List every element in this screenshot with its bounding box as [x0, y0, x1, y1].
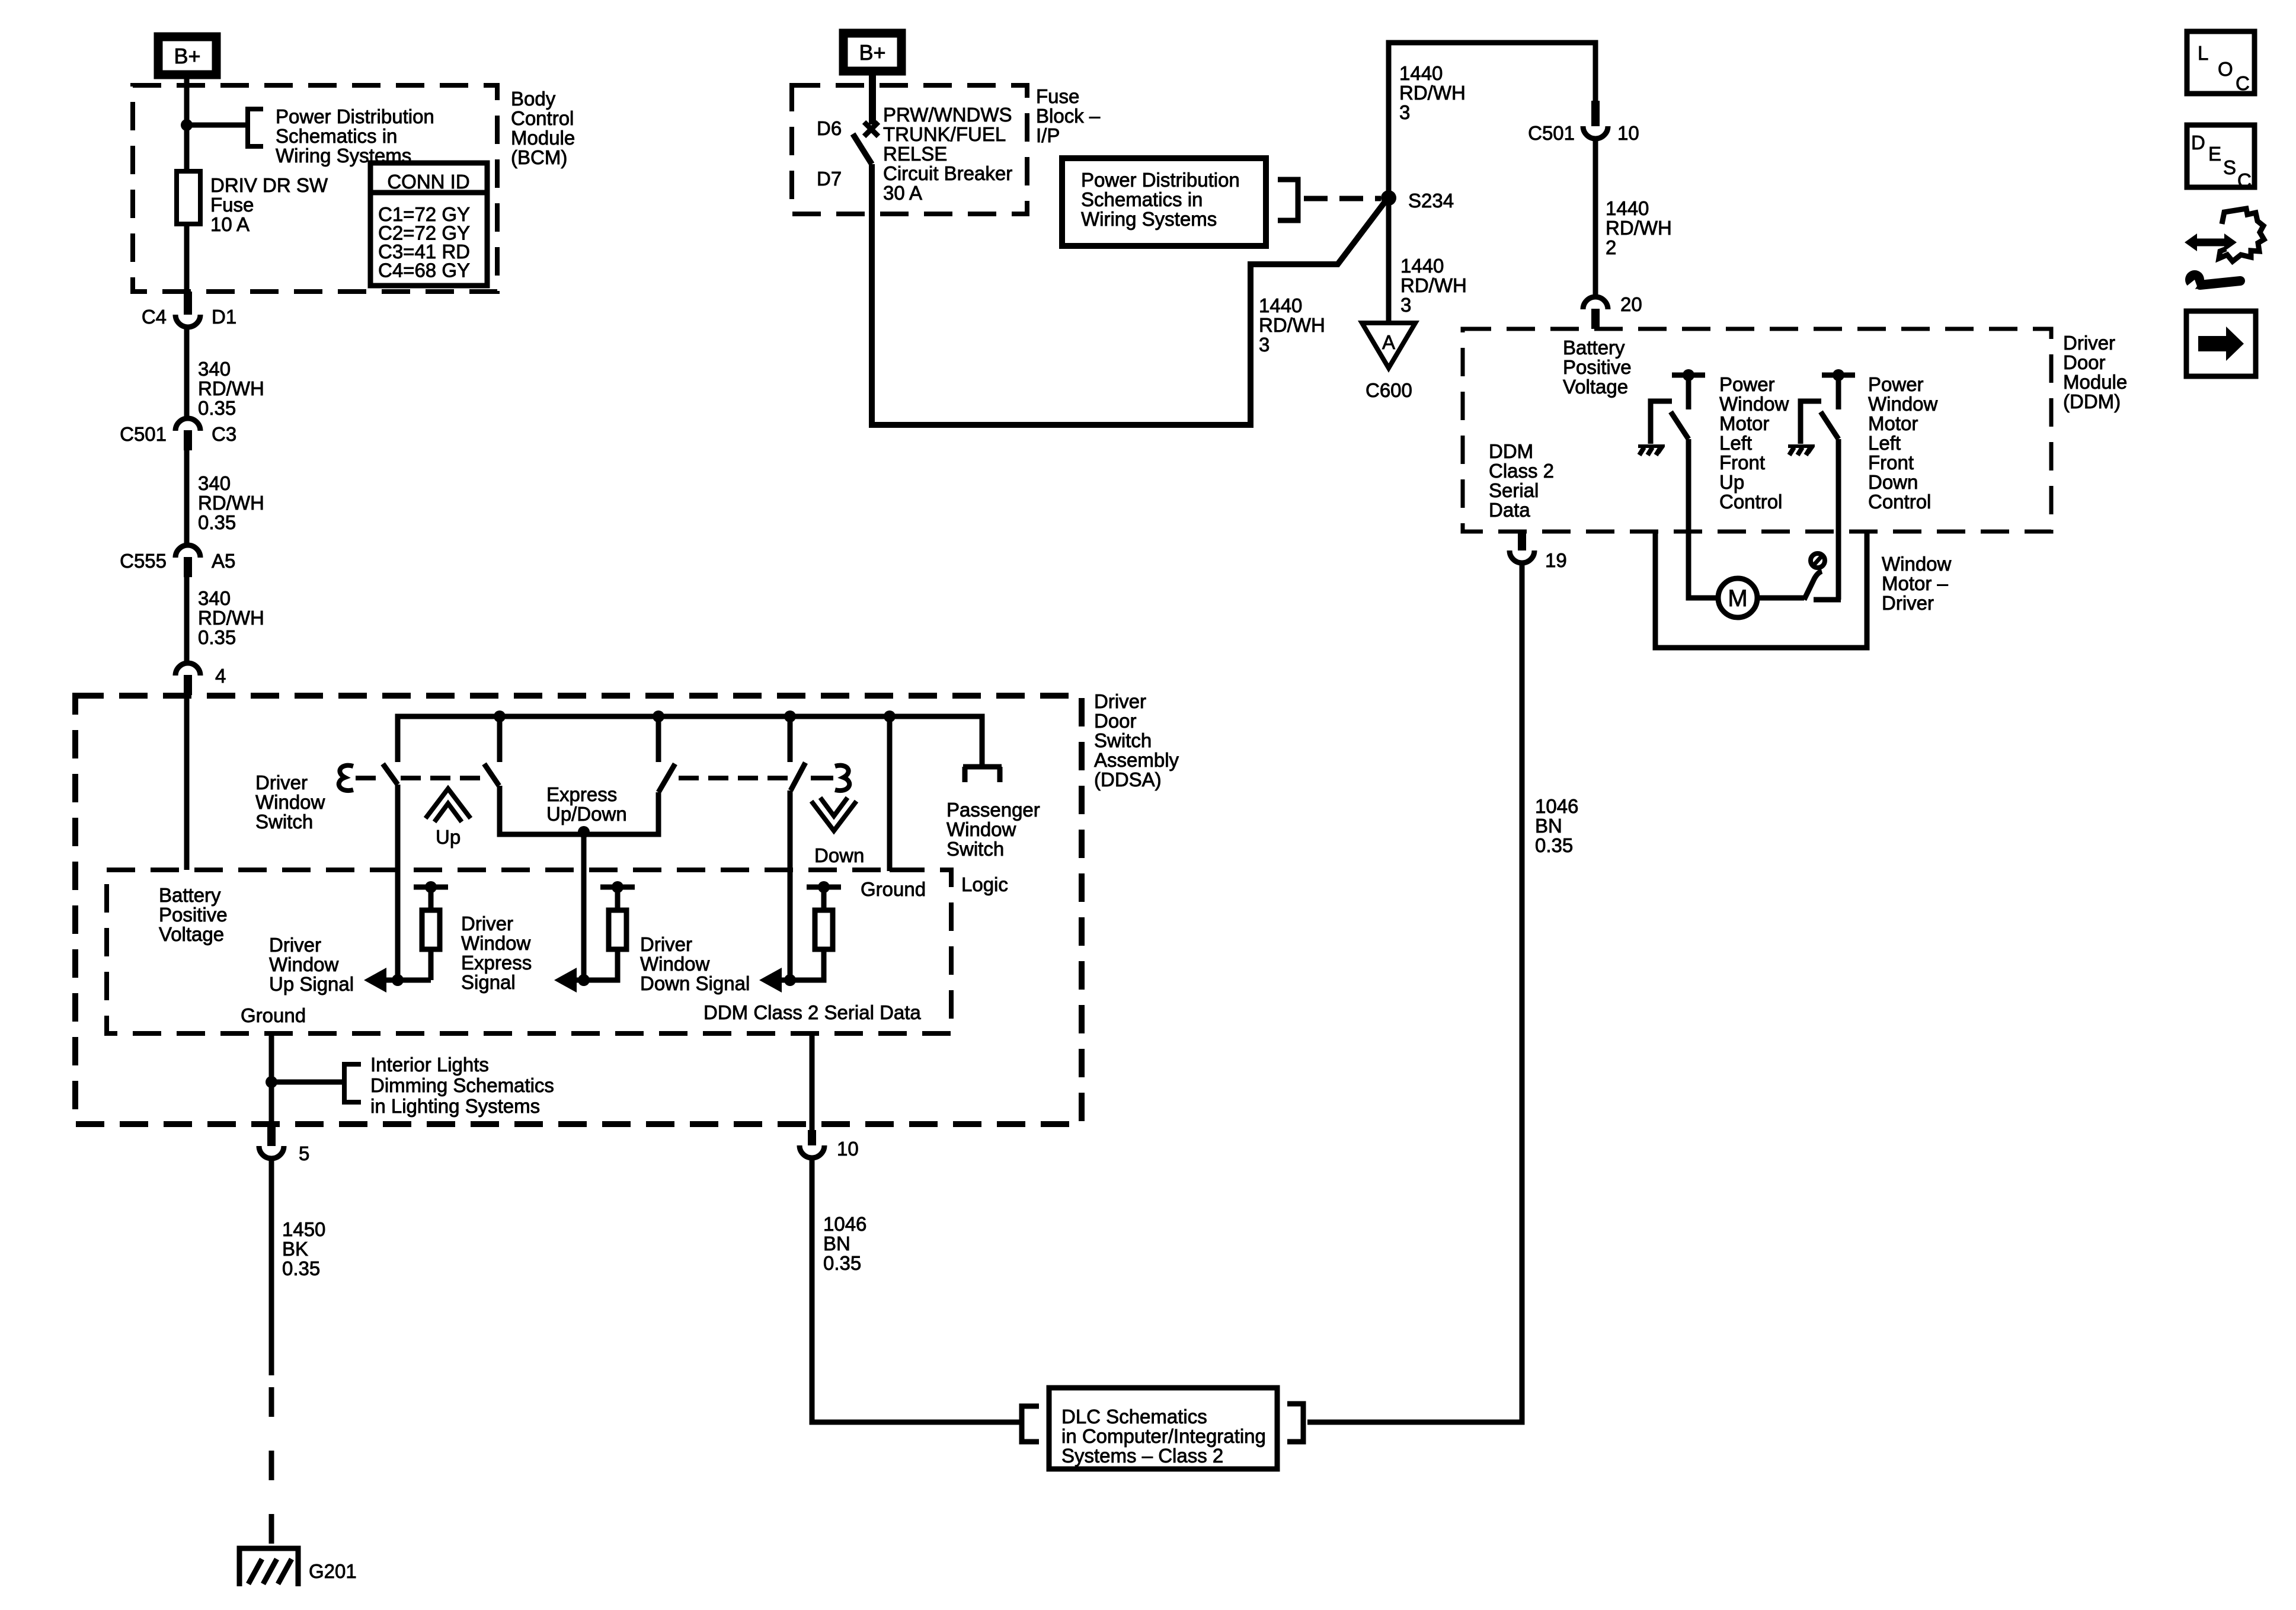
label: Express Up/Down: [546, 783, 627, 825]
svg-text:C: C: [2236, 72, 2250, 94]
svg-text:340: 340: [198, 358, 231, 380]
svg-text:Window: Window: [461, 932, 531, 954]
svg-text:Data: Data: [1489, 499, 1530, 521]
svg-text:Positive: Positive: [1563, 356, 1632, 378]
svg-text:A5: A5: [212, 550, 235, 572]
svg-text:BK: BK: [282, 1238, 308, 1260]
svg-text:Signal: Signal: [461, 971, 516, 993]
circuit breaker blade: [853, 134, 872, 164]
box: Power Distribution Schematics in Wiring Systems: [1062, 158, 1266, 246]
svg-text:Power: Power: [1868, 373, 1924, 395]
connector pin 19 (DDM serial data): [1510, 530, 1567, 571]
node: express center junction: [578, 826, 590, 838]
svg-text:1046: 1046: [823, 1213, 866, 1235]
connector pin 5: [259, 1126, 309, 1164]
svg-text:(DDSA): (DDSA): [1094, 769, 1162, 790]
svg-text:Up Signal: Up Signal: [269, 973, 354, 995]
wire 340 RD/WH segment 1: [184, 327, 190, 418]
off-page connector A / C600: [1362, 323, 1415, 401]
svg-text:E: E: [2208, 143, 2221, 165]
svg-text:0.35: 0.35: [198, 397, 236, 419]
reference bracket (right of box): [1278, 180, 1298, 220]
svg-text:B+: B+: [174, 44, 200, 68]
svg-text:Window: Window: [1882, 553, 1952, 575]
svg-text:D: D: [2191, 132, 2205, 153]
label: Body Control Module (BCM): [511, 88, 575, 168]
svg-text:Class 2: Class 2: [1489, 460, 1554, 482]
label: Up: [436, 826, 461, 848]
label: Window Motor - Driver: [1882, 553, 1952, 614]
svg-text:I/P: I/P: [1036, 124, 1060, 146]
svg-text:Driver: Driver: [2063, 332, 2115, 354]
wire: tap to interior lights bracket: [271, 1080, 343, 1085]
svg-text:RD/WH: RD/WH: [1259, 314, 1325, 336]
box: DLC Schematics in Computer/Integrating Systems - Class 2: [1049, 1388, 1277, 1469]
wire + arrow: Driver Window Up Signal: [364, 968, 431, 993]
reference bracket: DLC right: [1287, 1404, 1303, 1442]
svg-text:Up/Down: Up/Down: [546, 803, 627, 825]
label: 1440 RD/WH 3 (to C600): [1400, 255, 1467, 316]
svg-text:Fuse: Fuse: [1036, 85, 1079, 107]
wire: ground pin from bus junction 4: [890, 716, 923, 871]
wire 1440 RD/WH: breaker to S234: [872, 164, 1386, 425]
svg-text:10: 10: [837, 1138, 859, 1160]
label: Driver Window Up Signal: [269, 934, 354, 995]
svg-text:TRUNK/FUEL: TRUNK/FUEL: [883, 123, 1006, 145]
connector pin 20 (DDM): [1583, 293, 1642, 329]
svg-text:in Computer/Integrating: in Computer/Integrating: [1061, 1425, 1266, 1447]
svg-text:20: 20: [1620, 293, 1642, 315]
svg-text:Power Distribution: Power Distribution: [276, 105, 434, 127]
svg-text:0.35: 0.35: [823, 1252, 861, 1274]
svg-text:DDM Class 2 Serial Data: DDM Class 2 Serial Data: [703, 1001, 921, 1023]
svg-text:Driver: Driver: [1094, 690, 1146, 712]
svg-text:Battery: Battery: [159, 884, 221, 906]
svg-text:Window: Window: [946, 818, 1016, 840]
label: Passenger Window Switch: [946, 799, 1040, 860]
thermal breaker symbol (circle-slash): [1811, 553, 1825, 568]
svg-text:Block –: Block –: [1036, 105, 1101, 127]
node: bus junction 2: [653, 710, 664, 722]
svg-text:Body: Body: [511, 88, 556, 110]
svg-text:C4=68 GY: C4=68 GY: [378, 260, 470, 281]
svg-text:Up: Up: [436, 826, 461, 848]
label: Power Window Motor Left Front Down Control: [1868, 373, 1938, 513]
label: pin D7: [817, 168, 842, 190]
arrow: Driver Window Express Signal: [554, 968, 590, 993]
node: interior lights tap: [266, 1076, 277, 1088]
icon box: LOC: [2187, 31, 2255, 94]
brace: circuit continues (left): [339, 766, 353, 790]
connector C555 / A5: [120, 545, 235, 577]
svg-text:Schematics in: Schematics in: [276, 125, 397, 147]
svg-text:G201: G201: [309, 1560, 357, 1582]
svg-text:Module: Module: [511, 127, 575, 149]
switch: express up/down pair: [484, 716, 675, 834]
svg-text:30 A: 30 A: [883, 182, 922, 204]
svg-text:340: 340: [198, 587, 231, 609]
fuse DRIV DR SW 10 A: [177, 171, 200, 224]
svg-text:10: 10: [1617, 122, 1639, 144]
switch: driver window down: [790, 716, 805, 980]
svg-text:Front: Front: [1868, 452, 1914, 473]
label: Ground (right pin): [861, 878, 926, 900]
svg-text:Window: Window: [255, 791, 325, 813]
wire: fuse to connector C4: [184, 224, 190, 292]
label: Battery Positive Voltage (DDSA): [159, 884, 228, 945]
module box: DDSA inner electronics, dashed: [107, 870, 951, 1033]
svg-text:1440: 1440: [1399, 62, 1443, 84]
wire: motor to thermal breaker blade: [1757, 571, 1822, 600]
ground (up control): [1638, 444, 1665, 455]
svg-text:PRW/WNDWS: PRW/WNDWS: [883, 104, 1012, 126]
wire: motor return loop: [1655, 532, 1867, 648]
svg-text:CONN ID: CONN ID: [387, 171, 469, 193]
switch: driver window up: [383, 764, 398, 980]
connector C501 / 10 (DDM feed): [1528, 101, 1639, 144]
svg-text:Passenger: Passenger: [946, 799, 1040, 821]
label: Interior Lights Dimming Schematics in Lighting Systems: [370, 1054, 554, 1117]
svg-text:DLC Schematics: DLC Schematics: [1061, 1406, 1207, 1427]
svg-text:Door: Door: [2063, 351, 2106, 373]
label: Ground (left pin): [241, 1004, 306, 1026]
svg-text:C501: C501: [1528, 122, 1575, 144]
svg-text:Motor: Motor: [1868, 412, 1918, 434]
svg-text:5: 5: [299, 1142, 309, 1164]
resistor: express signal pull-up: [584, 881, 635, 980]
svg-text:C4: C4: [142, 306, 167, 328]
node: bus junction 1: [494, 710, 506, 722]
svg-text:Down Signal: Down Signal: [640, 972, 750, 994]
svg-text:4: 4: [215, 665, 226, 687]
motor M: window motor driver: [1718, 578, 1757, 617]
svg-text:Express: Express: [461, 952, 532, 974]
svg-text:Logic: Logic: [961, 873, 1008, 895]
icon box: DESC: [2187, 125, 2255, 191]
power symbol B+ (fuse block): [843, 33, 901, 71]
label: Driver Door Module (DDM): [2063, 332, 2127, 412]
reference bracket: DLC left: [1022, 1406, 1039, 1442]
svg-text:Motor –: Motor –: [1882, 572, 1949, 594]
svg-text:RD/WH: RD/WH: [198, 377, 264, 399]
svg-text:(BCM): (BCM): [511, 146, 567, 168]
svg-text:A: A: [1382, 331, 1395, 353]
svg-text:1046: 1046: [1535, 795, 1578, 817]
label: Fuse Block - I/P: [1036, 85, 1101, 146]
wire 1440 RD/WH 2: [1593, 138, 1598, 297]
label: Logic: [961, 873, 1008, 895]
svg-text:Positive: Positive: [159, 904, 228, 926]
label: Driver Window Express Signal: [461, 913, 532, 993]
wire: pin 4 to Battery Positive Voltage pin: [184, 696, 190, 870]
svg-text:Power Distribution: Power Distribution: [1081, 169, 1240, 191]
svg-text:Motor: Motor: [1719, 412, 1769, 434]
symbol: Down double chevron: [811, 798, 856, 831]
connector C501 / C3: [120, 418, 236, 450]
svg-text:M: M: [1728, 585, 1747, 612]
connector pin 4 (DDSA): [175, 663, 226, 695]
svg-text:S234: S234: [1408, 190, 1454, 212]
node: bus junction 3: [784, 710, 796, 722]
module box: Driver Door Module (DDM), dashed: [1463, 329, 2051, 532]
wire 340 RD/WH segment 3: [184, 577, 190, 662]
connector pin 10 (DDSA serial data): [800, 1033, 859, 1160]
label: Battery Positive Voltage (DDM): [1563, 337, 1632, 398]
svg-text:Down: Down: [1868, 471, 1918, 493]
wire: switch common bus: [398, 716, 982, 764]
svg-text:Serial: Serial: [1489, 479, 1539, 501]
svg-text:340: 340: [198, 472, 231, 494]
label: Power Distribution Schematics in Wiring Systems: [276, 105, 434, 167]
icon: service tool (arrow + wrench): [2183, 209, 2264, 295]
wire: S234 to C600: [1386, 198, 1392, 323]
arrow: Driver Window Down Signal: [759, 968, 796, 993]
svg-text:0.35: 0.35: [198, 626, 236, 648]
icon box: forward arrow: [2186, 311, 2256, 376]
svg-text:B+: B+: [859, 40, 885, 65]
label: 340 RD/WH 0.35 (3): [198, 587, 264, 648]
svg-text:Ground: Ground: [241, 1004, 306, 1026]
svg-text:Circuit Breaker: Circuit Breaker: [883, 162, 1012, 184]
table: CONN ID C1=72 GY C2=72 GY C3=41 RD C4=68 GY: [370, 163, 487, 286]
svg-text:RD/WH: RD/WH: [1400, 274, 1467, 296]
svg-text:Voltage: Voltage: [1563, 376, 1628, 398]
svg-text:Ground: Ground: [861, 878, 926, 900]
wire: B+ to fuse (BCM): [184, 75, 190, 171]
svg-text:Systems – Class 2: Systems – Class 2: [1061, 1445, 1223, 1467]
svg-text:Driver: Driver: [1882, 592, 1934, 614]
ground G201: [239, 1548, 357, 1586]
dashed switch row wire: [356, 776, 833, 780]
svg-text:0.35: 0.35: [282, 1257, 320, 1279]
svg-text:1450: 1450: [282, 1218, 325, 1240]
label: Power Window Motor Left Front Up Control: [1719, 373, 1789, 513]
label: DRIV DR SW Fuse 10 A: [210, 174, 328, 235]
svg-text:0.35: 0.35: [198, 511, 236, 533]
svg-text:Interior Lights: Interior Lights: [370, 1054, 489, 1076]
svg-text:S: S: [2223, 156, 2236, 178]
svg-text:RD/WH: RD/WH: [1606, 217, 1672, 239]
svg-text:Driver: Driver: [269, 934, 321, 956]
svg-text:Switch: Switch: [255, 811, 313, 833]
svg-text:Wiring Systems: Wiring Systems: [1081, 208, 1217, 230]
svg-text:BN: BN: [823, 1233, 850, 1254]
svg-text:C501: C501: [120, 423, 167, 445]
wire: B+ into breaker: [869, 70, 876, 124]
svg-text:2: 2: [1606, 236, 1616, 258]
svg-text:Driver: Driver: [461, 913, 513, 934]
label: 1440 RD/WH 2: [1606, 197, 1672, 258]
wire: junction to reference bracket: [187, 123, 248, 128]
label: DDM Class 2 Serial Data: [1489, 440, 1554, 521]
svg-text:C600: C600: [1366, 379, 1412, 401]
svg-text:Left: Left: [1719, 432, 1752, 454]
svg-text:Battery: Battery: [1563, 337, 1625, 359]
dashed wire to S234: [1304, 196, 1381, 201]
svg-text:Express: Express: [546, 783, 617, 805]
switch: power window down control: [1801, 369, 1855, 444]
wire: down control to motor switch contact: [1814, 439, 1841, 600]
ground (down control): [1788, 444, 1815, 455]
node: bus junction 4: [884, 710, 896, 722]
svg-text:in Lighting Systems: in Lighting Systems: [370, 1095, 540, 1117]
svg-text:Window: Window: [1868, 393, 1938, 415]
svg-text:Power: Power: [1719, 373, 1775, 395]
module box: Driver Door Switch Assembly (DDSA), dashed: [75, 696, 1082, 1124]
svg-text:DDM: DDM: [1489, 440, 1533, 462]
label: 340 RD/WH 0.35 (2): [198, 472, 264, 533]
brace: circuit continues (right): [835, 766, 849, 790]
label: PRW/WNDWS TRUNK/FUEL RELSE Circuit Breaker 30 A: [883, 104, 1012, 204]
svg-text:Front: Front: [1719, 452, 1765, 473]
svg-text:Window: Window: [1719, 393, 1789, 415]
svg-text:Driver: Driver: [640, 933, 692, 955]
label: 1440 RD/WH 3 (breaker run): [1259, 295, 1325, 356]
svg-text:C555: C555: [120, 550, 167, 572]
svg-text:Window: Window: [269, 953, 339, 975]
wire: dashed run to G201: [269, 1387, 274, 1544]
wire: top feed from S234: [1389, 43, 1595, 198]
svg-text:D6: D6: [817, 117, 842, 139]
wire 1450 BK: [269, 1158, 274, 1375]
connector C4 / D1: [142, 292, 236, 328]
svg-text:L: L: [2198, 42, 2208, 64]
svg-text:Down: Down: [814, 844, 864, 866]
label: Driver Window Switch: [255, 772, 325, 833]
svg-text:Assembly: Assembly: [1094, 749, 1179, 771]
label: 1440 RD/WH 3 (top): [1399, 62, 1466, 123]
reference bracket: Interior Lights Dimming: [344, 1064, 361, 1102]
module box: Fuse Block - I/P, dashed: [792, 85, 1027, 214]
wire 340 RD/WH segment 2: [184, 450, 190, 545]
power symbol B+ (BCM feed): [158, 37, 216, 75]
circuit breaker contact X: [864, 122, 878, 136]
svg-text:Control: Control: [511, 107, 574, 129]
svg-text:DRIV DR SW: DRIV DR SW: [210, 174, 328, 196]
svg-text:O: O: [2218, 58, 2233, 80]
svg-text:1440: 1440: [1259, 295, 1302, 316]
label: Down: [814, 844, 864, 866]
label: pin D6: [817, 117, 842, 139]
svg-text:RELSE: RELSE: [883, 143, 947, 165]
switch: power window up control: [1651, 369, 1705, 444]
svg-text:Control: Control: [1719, 491, 1782, 513]
svg-text:Fuse: Fuse: [210, 194, 254, 216]
svg-text:Up: Up: [1719, 471, 1744, 493]
node S234: [1381, 190, 1454, 212]
label: 1046 BN 0.35 (right): [1535, 795, 1578, 856]
wire: express signal down: [581, 832, 587, 980]
svg-text:Driver: Driver: [255, 772, 308, 793]
wire 1046 BN: pin 10 to DLC: [812, 1158, 1022, 1422]
svg-text:Switch: Switch: [1094, 729, 1152, 751]
label: 340 RD/WH 0.35 (1): [198, 358, 264, 419]
reference bracket: Power Distribution Schematics: [248, 109, 263, 146]
svg-text:RD/WH: RD/WH: [198, 607, 264, 629]
module box: Body Control Module (BCM), dashed: [133, 85, 497, 292]
svg-text:RD/WH: RD/WH: [198, 492, 264, 514]
svg-text:0.35: 0.35: [1535, 834, 1573, 856]
svg-text:RD/WH: RD/WH: [1399, 82, 1466, 104]
wire: passenger window switch feed: [963, 764, 1002, 782]
svg-text:10 A: 10 A: [210, 213, 250, 235]
svg-text:C3: C3: [212, 423, 236, 445]
svg-text:Schematics in: Schematics in: [1081, 188, 1203, 210]
label: 1450 BK 0.35: [282, 1218, 325, 1279]
label: Driver Door Switch Assembly (DDSA): [1094, 690, 1179, 790]
label: 1046 BN 0.35 (left): [823, 1213, 866, 1274]
svg-text:Control: Control: [1868, 491, 1931, 513]
label: Driver Window Down Signal: [640, 933, 750, 994]
label: DDM Class 2 Serial Data (DDSA pin): [703, 1001, 921, 1023]
resistor: down signal pull-up: [790, 881, 841, 980]
svg-text:1440: 1440: [1400, 255, 1444, 277]
svg-text:BN: BN: [1535, 815, 1562, 837]
svg-text:Dimming Schematics: Dimming Schematics: [370, 1074, 554, 1096]
svg-text:Left: Left: [1868, 432, 1901, 454]
svg-text:1440: 1440: [1606, 197, 1649, 219]
svg-text:D7: D7: [817, 168, 842, 190]
wire 1046 BN: pin 19 to DLC: [1307, 563, 1522, 1422]
svg-text:C: C: [2237, 169, 2252, 191]
svg-text:Switch: Switch: [946, 838, 1004, 860]
wire: ground pin down to connector 5: [269, 1033, 274, 1126]
svg-text:Door: Door: [1094, 710, 1137, 732]
svg-text:19: 19: [1545, 549, 1567, 571]
symbol: Up double chevron: [426, 789, 471, 822]
resistor: up signal pull-up: [414, 881, 448, 980]
node: junction to power distribution reference: [181, 119, 193, 131]
svg-text:Window: Window: [640, 953, 710, 975]
svg-text:3: 3: [1399, 101, 1410, 123]
svg-text:Module: Module: [2063, 371, 2127, 393]
wire: up control to motor: [1689, 439, 1718, 598]
svg-text:3: 3: [1259, 334, 1269, 356]
svg-text:D1: D1: [212, 306, 236, 328]
svg-text:3: 3: [1400, 294, 1411, 316]
svg-text:(DDM): (DDM): [2063, 391, 2121, 412]
svg-text:Voltage: Voltage: [159, 923, 224, 945]
